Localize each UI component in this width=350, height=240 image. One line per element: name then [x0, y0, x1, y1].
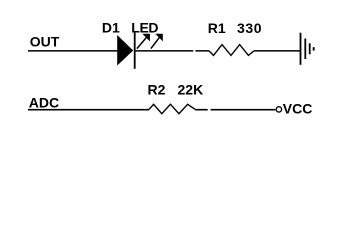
svg-text:VCC: VCC [283, 100, 313, 116]
diode D1 cathode bar [134, 31, 136, 69]
svg-text:R2: R2 [148, 82, 166, 98]
VCC open terminal circle [276, 107, 281, 112]
svg-text:330: 330 [237, 20, 262, 36]
LED arrow 2 [151, 34, 163, 49]
svg-text:OUT: OUT [30, 34, 60, 50]
wire D1 cathode to R1 [136, 50, 194, 52]
svg-text:ADC: ADC [29, 95, 59, 111]
svg-text:D1: D1 [102, 20, 120, 36]
wire ADC to R2 [28, 109, 149, 111]
diode D1 (LED) triangle [117, 35, 133, 66]
wire lead into R1 [195, 50, 209, 52]
wire R2 lead out [195, 109, 207, 111]
LED arrow 1 [137, 34, 150, 49]
wire R1 to ground [254, 50, 300, 52]
ground symbol [300, 33, 315, 65]
resistor R1 zigzag [209, 45, 254, 56]
resistor R2 zigzag [149, 104, 195, 113]
wire OUT to D1 anode [28, 50, 117, 52]
svg-text:22K: 22K [178, 82, 204, 98]
wire to VCC terminal [211, 109, 276, 111]
svg-text:LED: LED [131, 20, 158, 36]
svg-text:R1: R1 [208, 20, 226, 36]
